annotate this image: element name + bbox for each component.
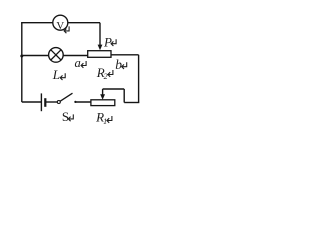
wire R1 slider vertical — [102, 89, 104, 95]
wire jog vertical — [123, 89, 125, 103]
wire R1 slider horizontal — [103, 88, 125, 90]
battery long plate — [40, 93, 42, 111]
return mark after R1 — [107, 116, 112, 123]
return mark after a — [81, 61, 86, 68]
resistor R2 box — [88, 51, 111, 58]
svg-text:P: P — [103, 34, 112, 49]
lamp cross — [51, 50, 61, 60]
wire top horizontal — [21, 22, 100, 24]
svg-text:V: V — [56, 20, 64, 32]
return mark after b — [122, 62, 127, 69]
wire left vertical — [21, 23, 23, 102]
wire battery to switch — [45, 101, 57, 103]
svg-text:1: 1 — [103, 117, 107, 126]
voltmeter U circle — [53, 15, 68, 30]
svg-text:L: L — [52, 67, 60, 82]
return mark after P — [111, 39, 116, 46]
arrow onto R1 slider — [100, 94, 105, 100]
wire bottom jog — [124, 102, 139, 104]
return mark after V — [64, 26, 69, 33]
svg-text:a: a — [75, 56, 81, 70]
lamp L circle with cross — [49, 48, 64, 63]
node junction dot left — [20, 55, 23, 58]
switch contact dot — [74, 101, 76, 103]
switch lever — [60, 93, 72, 101]
svg-text:b: b — [115, 57, 122, 72]
return mark after S — [68, 114, 73, 121]
wire bottom left — [22, 101, 42, 103]
svg-text:S: S — [62, 109, 69, 124]
return mark after R2 — [108, 70, 113, 77]
svg-text:2: 2 — [104, 72, 108, 81]
wire b to right — [111, 54, 139, 56]
return mark after L — [60, 73, 65, 80]
wire right vertical — [138, 55, 140, 103]
switch pivot — [57, 101, 60, 104]
wire top-right vertical to P — [99, 23, 101, 45]
wire middle horizontal (lamp branch) — [22, 55, 88, 57]
arrow P onto R2 — [98, 45, 103, 51]
battery short plate — [44, 98, 46, 107]
wire switch to R1 — [75, 101, 91, 103]
resistor R1 box — [91, 100, 115, 106]
